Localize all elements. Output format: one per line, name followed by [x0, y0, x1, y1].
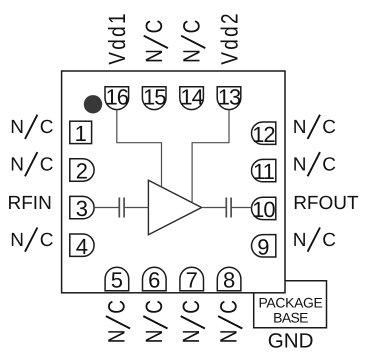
wire Vdd1 pin16 to op-amp — [117, 110, 162, 188]
package outline — [62, 71, 285, 293]
pin 14 — [180, 85, 204, 110]
svg-text:5: 5 — [111, 268, 123, 293]
label RFIN pin 3 — [7, 193, 51, 214]
pin 6 — [143, 267, 167, 292]
capacitor C2 — [226, 198, 231, 218]
svg-text:6: 6 — [148, 268, 160, 293]
svg-text:10: 10 — [252, 197, 275, 222]
label N/C pin 8 — [217, 300, 243, 343]
label N/C pin 1 — [10, 115, 53, 139]
wire op-amp output to C2 — [202, 207, 226, 209]
svg-text:Vdd2: Vdd2 — [218, 11, 244, 65]
svg-text:GND: GND — [268, 330, 314, 353]
pin 12 — [252, 122, 276, 147]
svg-text:4: 4 — [76, 234, 88, 259]
label Vdd1 pin 16 — [105, 11, 131, 65]
package base box (exposed pad) — [254, 281, 327, 328]
pin 5 — [105, 267, 129, 292]
wire pin3 to C1 — [94, 207, 119, 209]
op-amp U1 — [148, 180, 201, 234]
svg-text:RFIN: RFIN — [7, 193, 51, 214]
pin 16 — [105, 85, 129, 110]
label N/C pin 12 — [293, 115, 336, 139]
svg-text:7: 7 — [186, 268, 198, 293]
wire Vdd2 pin13 to op-amp — [192, 110, 229, 203]
svg-text:14: 14 — [180, 85, 203, 110]
label GND — [268, 330, 314, 353]
capacitor C1 — [119, 198, 124, 218]
pin 3 — [70, 196, 94, 221]
svg-text:3: 3 — [76, 196, 88, 221]
label N/C pin 4 — [10, 228, 53, 252]
pin 2 — [70, 159, 94, 184]
svg-text:PACKAGE: PACKAGE — [258, 295, 322, 311]
pin 9 — [252, 234, 276, 259]
wire C2 to pin 10 — [231, 207, 251, 209]
pin 7 — [180, 267, 204, 292]
label PACKAGE BASE — [258, 295, 322, 326]
svg-text:13: 13 — [218, 85, 241, 110]
svg-text:Vdd1: Vdd1 — [105, 11, 131, 65]
svg-text:12: 12 — [252, 122, 275, 147]
label N/C pin 5 — [105, 300, 131, 343]
pin 11 — [252, 159, 276, 184]
svg-text:BASE: BASE — [273, 309, 308, 325]
pin 13 — [217, 85, 241, 110]
wire C1 to op-amp input — [124, 207, 148, 209]
label N/C pin 11 — [293, 152, 336, 176]
label N/C pin 7 — [179, 300, 205, 343]
pin 1 marker dot — [84, 95, 102, 113]
svg-text:1: 1 — [75, 121, 87, 146]
svg-text:8: 8 — [223, 268, 235, 293]
svg-text:2: 2 — [76, 159, 88, 184]
label N/C pin 9 — [293, 228, 336, 252]
svg-text:9: 9 — [257, 234, 269, 259]
label RFOUT pin 10 — [293, 193, 359, 214]
pin 15 — [142, 85, 166, 110]
svg-text:11: 11 — [253, 159, 275, 184]
pin 4 — [70, 234, 94, 259]
label N/C pin 14 — [180, 20, 206, 63]
label N/C pin 15 — [142, 20, 168, 63]
label N/C pin 6 — [142, 300, 168, 343]
pin 1 — [70, 121, 92, 146]
label Vdd2 pin 13 — [218, 11, 244, 65]
svg-text:15: 15 — [143, 85, 166, 110]
svg-text:RFOUT: RFOUT — [293, 193, 359, 214]
svg-text:16: 16 — [106, 85, 129, 110]
pin 10 — [252, 197, 276, 222]
pin 8 — [217, 267, 241, 292]
label N/C pin 2 — [10, 152, 53, 176]
